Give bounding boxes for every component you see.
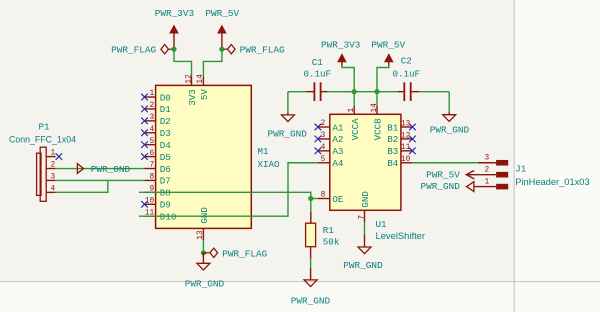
svg-text:5V: 5V — [199, 89, 210, 101]
svg-text:A1: A1 — [332, 122, 344, 133]
svg-text:PWR_FLAG: PWR_FLAG — [222, 249, 267, 260]
svg-text:D0: D0 — [160, 92, 171, 103]
svg-text:2: 2 — [51, 162, 56, 170]
svg-text:C1: C1 — [312, 57, 324, 68]
svg-text:B2: B2 — [387, 134, 398, 145]
svg-text:XIAO: XIAO — [258, 159, 281, 170]
svg-text:1: 1 — [485, 178, 490, 186]
svg-text:4: 4 — [51, 185, 56, 193]
svg-text:C2: C2 — [401, 55, 412, 66]
svg-text:PWR_5V: PWR_5V — [371, 39, 405, 50]
svg-text:B3: B3 — [387, 146, 398, 157]
svg-text:VCCB: VCCB — [373, 118, 384, 141]
svg-text:PWR_GND: PWR_GND — [268, 129, 308, 140]
svg-text:LevelShifter: LevelShifter — [376, 230, 426, 241]
svg-text:50k: 50k — [323, 237, 340, 248]
svg-text:R1: R1 — [323, 225, 335, 236]
svg-text:PWR_GND: PWR_GND — [421, 181, 461, 192]
svg-text:10: 10 — [145, 197, 155, 205]
svg-text:D6: D6 — [160, 164, 171, 175]
svg-text:D2: D2 — [160, 116, 171, 127]
svg-text:2: 2 — [150, 102, 155, 110]
svg-text:2: 2 — [485, 166, 490, 174]
svg-text:D10: D10 — [160, 212, 177, 223]
svg-text:3: 3 — [485, 155, 490, 163]
svg-text:PWR_FLAG: PWR_FLAG — [240, 44, 285, 55]
svg-text:PWR_5V: PWR_5V — [426, 169, 460, 180]
svg-text:PWR_GND: PWR_GND — [430, 125, 470, 136]
svg-text:8: 8 — [150, 174, 155, 182]
svg-text:U1: U1 — [376, 219, 388, 230]
svg-text:6: 6 — [150, 150, 155, 158]
svg-text:5: 5 — [150, 138, 155, 146]
svg-text:A4: A4 — [332, 158, 344, 169]
svg-text:1: 1 — [51, 150, 56, 158]
svg-text:PWR_3V3: PWR_3V3 — [155, 8, 195, 19]
svg-text:D1: D1 — [160, 104, 172, 115]
svg-text:7: 7 — [358, 215, 366, 220]
svg-text:1: 1 — [150, 90, 155, 98]
svg-text:10: 10 — [401, 156, 411, 164]
svg-text:PWR_3V3: PWR_3V3 — [321, 40, 361, 51]
svg-text:1: 1 — [348, 108, 356, 113]
svg-text:PWR_GND: PWR_GND — [343, 260, 383, 271]
svg-text:0.1uF: 0.1uF — [304, 68, 332, 79]
svg-text:J1: J1 — [515, 164, 527, 175]
svg-text:P1: P1 — [39, 122, 51, 133]
svg-text:5: 5 — [321, 156, 326, 164]
svg-text:D3: D3 — [160, 128, 171, 139]
svg-text:OE: OE — [332, 194, 344, 205]
svg-text:GND: GND — [360, 191, 371, 208]
svg-text:4: 4 — [150, 126, 155, 134]
svg-text:D7: D7 — [160, 176, 171, 187]
svg-text:D8: D8 — [160, 188, 171, 199]
svg-text:D4: D4 — [160, 140, 172, 151]
svg-text:D9: D9 — [160, 200, 171, 211]
svg-text:A3: A3 — [332, 146, 343, 157]
svg-text:B4: B4 — [387, 158, 399, 169]
svg-text:3: 3 — [51, 173, 56, 181]
svg-text:A2: A2 — [332, 134, 343, 145]
svg-text:B1: B1 — [387, 122, 399, 133]
svg-text:M1: M1 — [258, 146, 270, 157]
svg-text:0.1uF: 0.1uF — [393, 68, 421, 79]
svg-text:13: 13 — [197, 230, 205, 240]
svg-text:PWR_FLAG: PWR_FLAG — [111, 44, 156, 55]
svg-text:VCCA: VCCA — [350, 118, 361, 141]
svg-text:Conn_FFC_1x04: Conn_FFC_1x04 — [9, 134, 76, 144]
svg-text:D5: D5 — [160, 152, 171, 163]
svg-text:GND: GND — [199, 207, 210, 224]
svg-text:7: 7 — [150, 162, 155, 170]
svg-text:PWR_5V: PWR_5V — [205, 8, 239, 19]
svg-text:PWR_GND: PWR_GND — [291, 296, 331, 307]
svg-text:3V3: 3V3 — [187, 89, 198, 106]
svg-text:8: 8 — [321, 192, 326, 200]
svg-text:PWR_GND: PWR_GND — [185, 279, 225, 290]
svg-text:PWR_GND: PWR_GND — [91, 164, 131, 175]
svg-text:3: 3 — [150, 114, 155, 122]
svg-text:PinHeader_01x03: PinHeader_01x03 — [515, 177, 589, 187]
